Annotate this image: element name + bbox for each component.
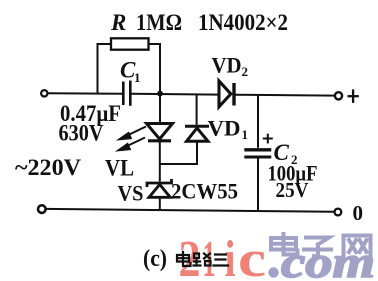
caption chinese 电路三 — [177, 252, 228, 266]
svg-text:1N4002×2: 1N4002×2 — [198, 10, 288, 35]
watermark .com — [268, 267, 278, 277]
wire VS to bottom rail — [159, 197, 161, 210]
watermark chinese 电子网 — [271, 234, 371, 257]
svg-text:~220V: ~220V — [15, 155, 81, 180]
output plus sign — [348, 89, 359, 103]
svg-text:c: c — [238, 231, 266, 281]
wire top rail right segment — [235, 94, 335, 97]
diode VD1 — [160, 95, 209, 164]
svg-text:(c): (c) — [143, 246, 167, 272]
svg-text:VD: VD — [212, 53, 242, 78]
LED VL light arrows — [119, 127, 147, 151]
wire C2 branch bottom — [257, 159, 259, 212]
zener diode VS — [147, 179, 172, 197]
svg-text:VL: VL — [105, 156, 134, 181]
resistor R — [111, 38, 149, 49]
wire resistor left lead — [98, 44, 112, 93]
svg-text:i: i — [225, 231, 236, 281]
wire junction to VL — [159, 94, 161, 124]
wire bottom rail — [46, 209, 335, 212]
wire VL to VS — [159, 142, 161, 182]
svg-text:VD: VD — [208, 116, 241, 141]
wire top rail left segment — [48, 92, 123, 95]
capacitor C1 — [123, 81, 130, 106]
node: DC output plus terminal — [335, 92, 342, 99]
svg-text:1MΩ: 1MΩ — [136, 10, 182, 35]
node: AC input bottom terminal — [38, 205, 46, 213]
svg-text:0: 0 — [353, 201, 364, 225]
C2 polarity plus sign — [263, 134, 273, 144]
node: AC input top terminal — [41, 90, 47, 96]
wire C2 branch top — [257, 95, 259, 148]
svg-text:2: 2 — [242, 64, 249, 79]
LED VL — [147, 124, 173, 141]
svg-text:1: 1 — [203, 231, 216, 281]
svg-text:R: R — [110, 10, 126, 35]
svg-text:25V: 25V — [276, 178, 309, 202]
node: DC output zero terminal — [335, 209, 342, 216]
svg-text:2CW55: 2CW55 — [171, 179, 238, 204]
svg-text:1: 1 — [242, 127, 249, 142]
wire top rail middle segment — [131, 93, 218, 96]
svg-text:VS: VS — [118, 181, 144, 206]
wire resistor right lead — [149, 44, 161, 94]
junction node dot — [157, 91, 163, 97]
svg-text:1: 1 — [134, 70, 141, 85]
diode VD2 — [219, 81, 234, 107]
watermark 21ic logo — [179, 231, 267, 281]
capacitor C2 electrolytic — [244, 150, 271, 157]
svg-text:630V: 630V — [59, 121, 104, 146]
